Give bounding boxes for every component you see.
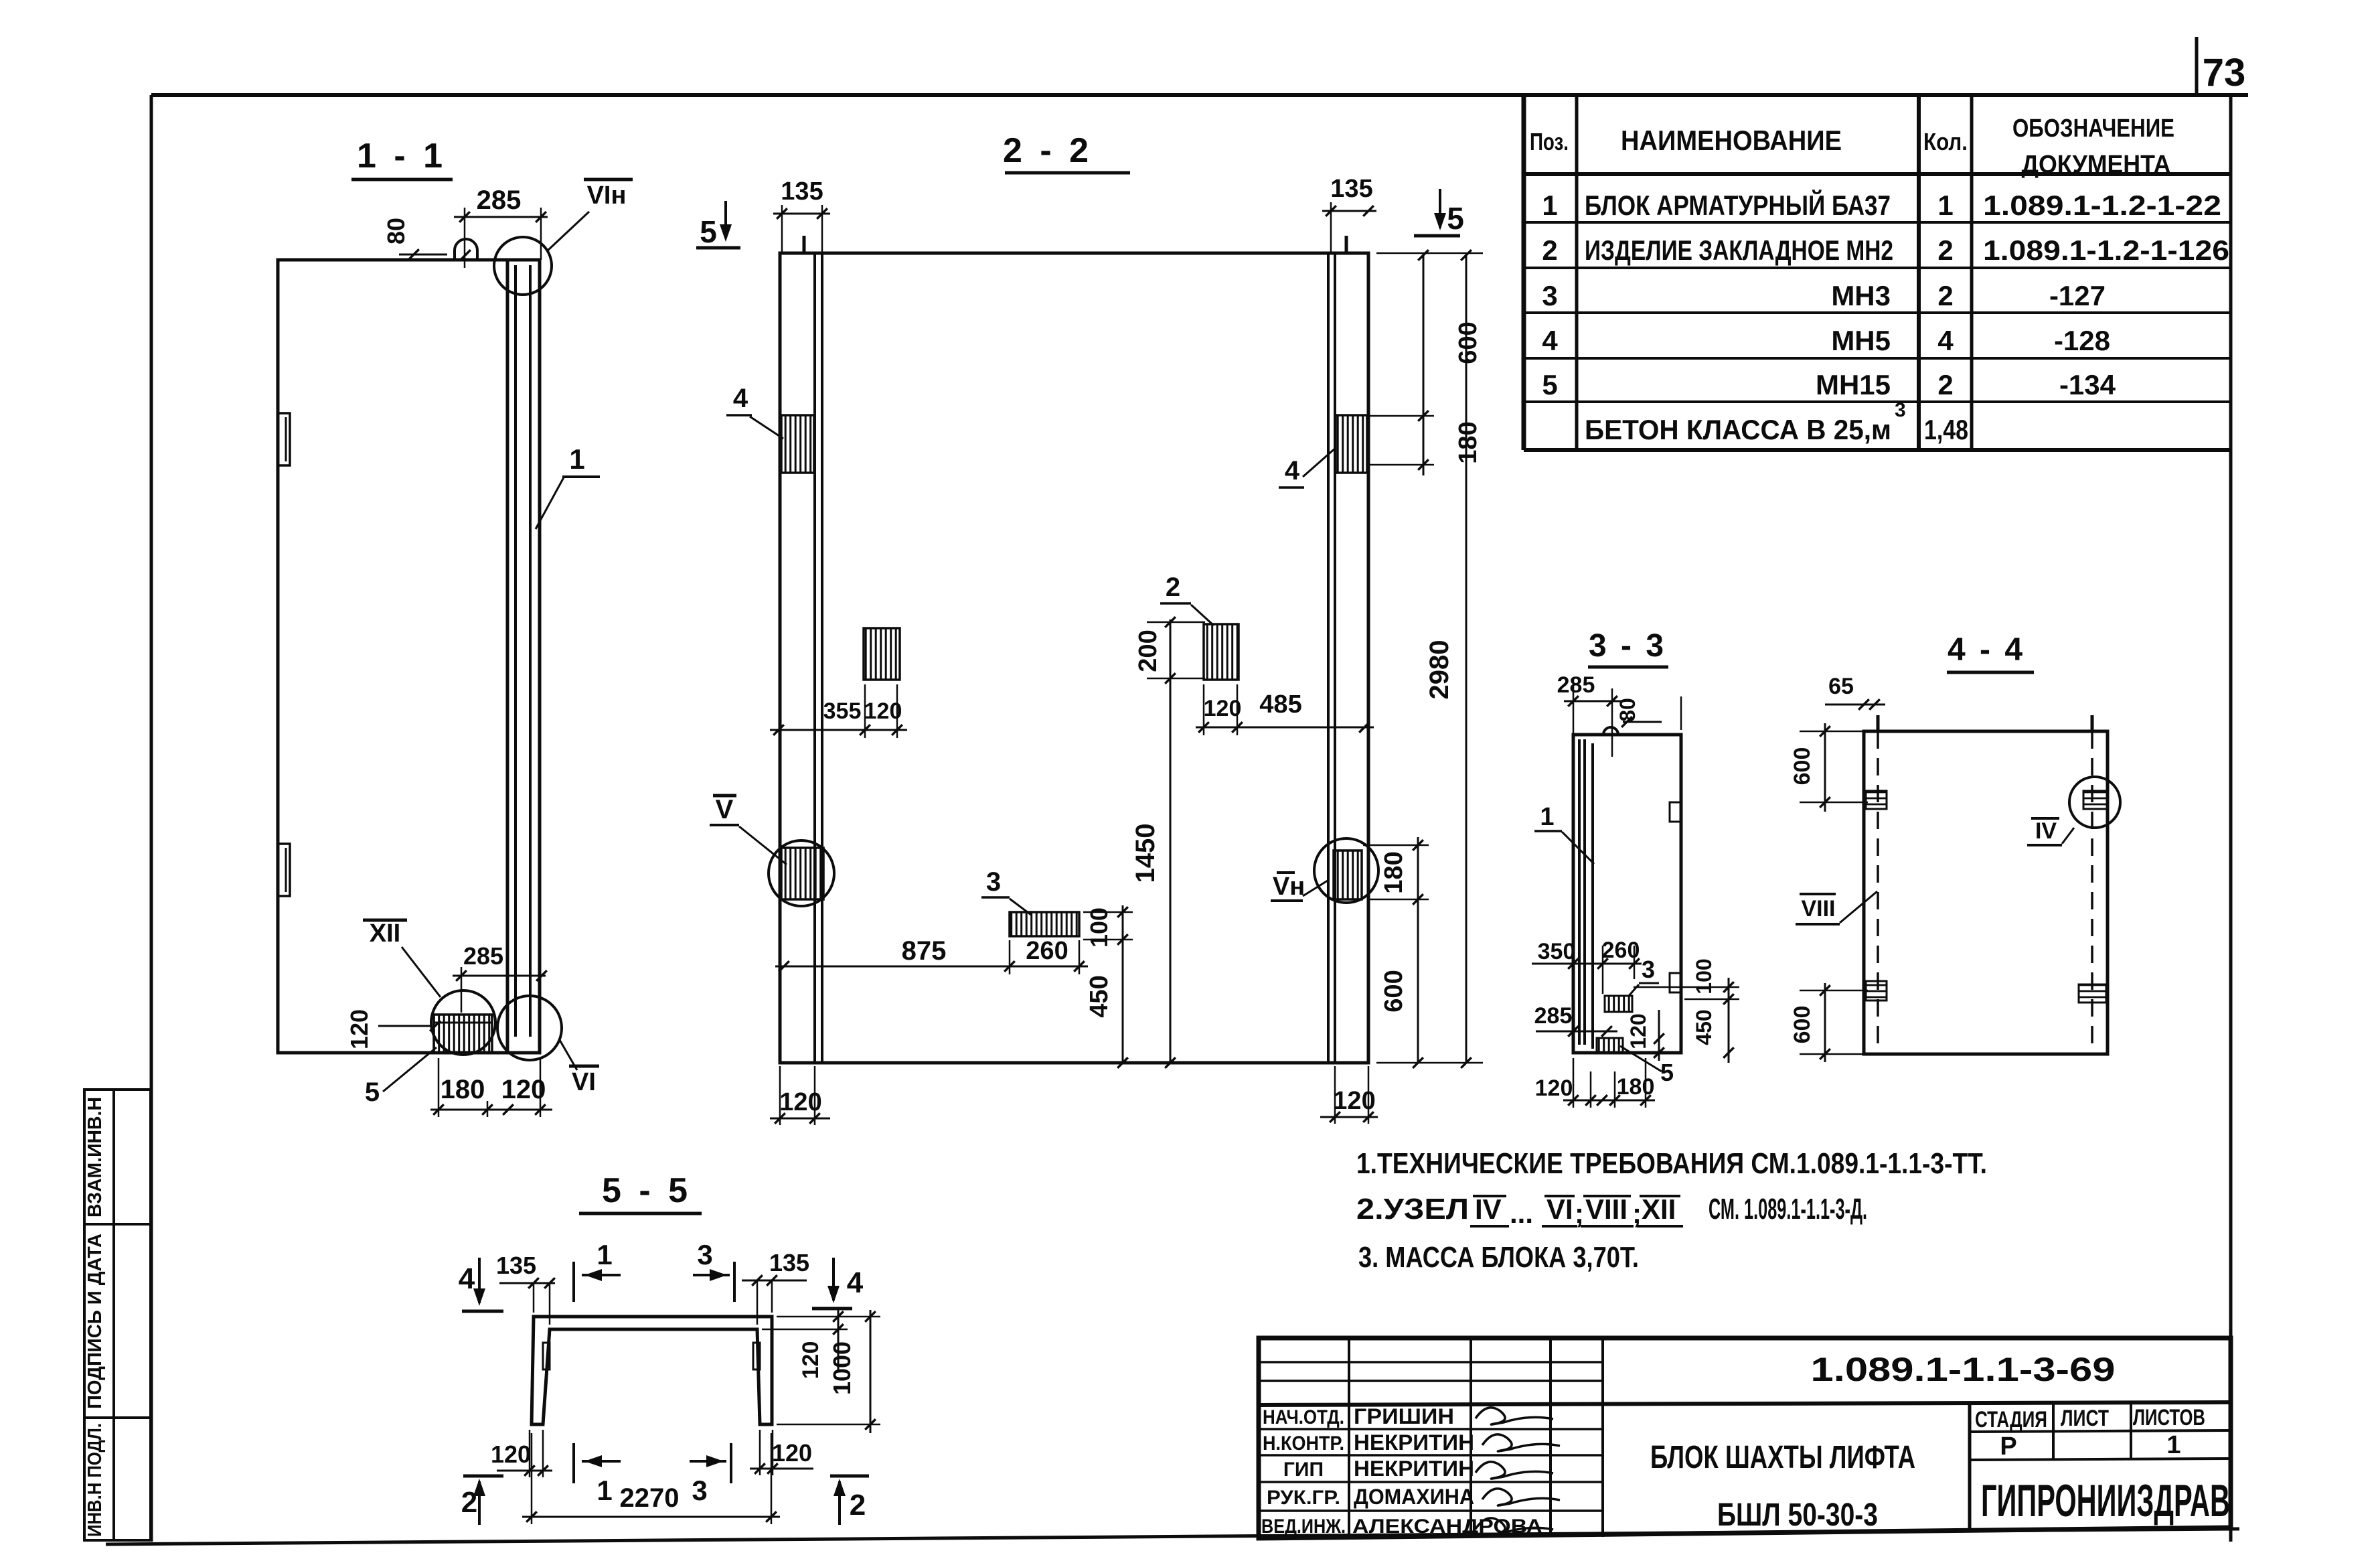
svg-text:120: 120 [1333,1087,1375,1115]
view 2-2 dim 135 top right [1322,210,1376,212]
view 2-2 dim 1450 [1165,1057,1176,1068]
svg-text:ГИП: ГИП [1283,1459,1324,1481]
svg-text:ПОДПИСЬ И ДАТА: ПОДПИСЬ И ДАТА [84,1234,106,1409]
svg-text:5: 5 [1660,1059,1674,1086]
svg-text:600: 600 [1454,321,1482,364]
view 4-4 stub left [1877,715,1880,731]
svg-text:ВЕД.ИНЖ.: ВЕД.ИНЖ. [1261,1515,1346,1538]
svg-text:МН15: МН15 [1816,369,1891,400]
view 3-3 bottom dims 120 180 [1563,1100,1655,1102]
svg-text:БЛОК ШАХТЫ ЛИФТА: БЛОК ШАХТЫ ЛИФТА [1650,1440,1915,1475]
svg-text:4: 4 [733,384,748,413]
svg-text:285: 285 [1557,672,1595,698]
parts table grid [1524,95,2231,450]
svg-text:1: 1 [597,1239,612,1270]
svg-text:5: 5 [1542,369,1557,400]
svg-text:IV: IV [2035,818,2057,844]
svg-text:1: 1 [569,443,584,475]
view 4-4 label IV [2031,817,2059,820]
view 3-3 dim 285 top [1564,700,1623,702]
svg-text:1.089.1-1.2-1-22: 1.089.1-1.2-1-22 [1983,190,2221,221]
view 1-1 label VIn [584,178,633,181]
svg-text:1: 1 [1542,190,1557,221]
view 2-2 pos4 block right [1336,415,1367,473]
svg-text:2.УЗЕЛ: 2.УЗЕЛ [1356,1193,1469,1226]
svg-text:ОБОЗНАЧЕНИЕ: ОБОЗНАЧЕНИЕ [2012,115,2174,143]
svg-text:2: 2 [1166,573,1180,602]
svg-text:4: 4 [1937,325,1954,356]
view 1-1 wall lines [506,260,509,1053]
svg-text:3 - 3: 3 - 3 [1589,628,1666,664]
svg-text:2980: 2980 [1425,640,1454,700]
svg-text:VIн: VIн [587,181,627,210]
view 4-4 stub right [2091,715,2094,731]
sidebar boxes (inv/podpis columns) [84,1090,151,1540]
svg-text:РУК.ГР.: РУК.ГР. [1267,1487,1340,1509]
view 2-2 dim 200 [1170,619,1172,1063]
svg-text:;: ; [1632,1197,1642,1229]
view 2-2 detail circle V [769,840,834,906]
svg-text:120: 120 [1535,1076,1573,1101]
svg-text:1.089.1-1.1-3-69: 1.089.1-1.1-3-69 [1811,1351,2116,1388]
view 2-2 left wall lines [813,253,816,1063]
view 5-5 right leg insert [753,1343,760,1369]
section marker 1 top [572,1262,575,1302]
view 1-1 left edge notch upper [278,413,290,465]
svg-text:XII: XII [370,919,400,948]
svg-text:1: 1 [2166,1431,2180,1459]
view 1-1 detail circle VIn [494,237,552,295]
svg-text:100: 100 [1692,958,1716,994]
svg-text:ВЗАМ.ИНВ.Н: ВЗАМ.ИНВ.Н [84,1097,106,1217]
svg-text:-127: -127 [2049,280,2106,311]
view 2-2 rebar stub right [1345,236,1348,253]
view 2-2 label Vn [1277,871,1295,874]
svg-text:285: 285 [463,942,503,970]
svg-text:НАИМЕНОВАНИЕ: НАИМЕНОВАНИЕ [1621,125,1842,156]
svg-text:180: 180 [1380,851,1408,893]
svg-text:ИНВ.Н ПОДЛ.: ИНВ.Н ПОДЛ. [84,1423,106,1537]
svg-text:100: 100 [1085,907,1113,948]
svg-text:1.ТЕХНИЧЕСКИЕ ТРЕБОВАНИЯ СМ.: 1.ТЕХНИЧЕСКИЕ ТРЕБОВАНИЯ СМ.1.089.1-1.1-… [1356,1147,1987,1180]
view 2-2 dim line 2980 [1465,255,1467,1063]
svg-text:ГРИШИН: ГРИШИН [1354,1404,1454,1428]
svg-text:ИЗДЕЛИЕ ЗАКЛАДНОЕ МН2: ИЗДЕЛИЕ ЗАКЛАДНОЕ МН2 [1585,234,1893,266]
svg-text:355: 355 [823,698,862,724]
svg-text:1450: 1450 [1131,824,1160,883]
svg-text:5: 5 [365,1078,380,1107]
svg-text:Vн: Vн [1273,873,1305,901]
view 4-4 plate top right [2083,791,2108,809]
svg-text:V: V [716,795,734,824]
view 5-5 channel outline [532,1317,772,1424]
svg-text:4: 4 [459,1262,475,1295]
svg-text:120: 120 [1626,1013,1650,1049]
svg-text:600: 600 [1790,1006,1815,1044]
svg-text:80: 80 [382,218,410,244]
view 4-4 dashed axis left [1877,731,1879,1054]
svg-text:3: 3 [986,867,1001,897]
view 2-2 dim 355 120 [770,729,907,731]
svg-text:БШЛ 50-30-3: БШЛ 50-30-3 [1717,1497,1878,1533]
view 4-4 dashed axis right [2091,731,2093,1054]
view 1-1 bottom dims 180 120 [430,1109,552,1111]
svg-text:1000: 1000 [828,1341,856,1395]
view 4-4 dim 600 top left [1824,723,1826,812]
svg-text:3: 3 [1542,280,1557,311]
svg-text:ЛИСТОВ: ЛИСТОВ [2133,1405,2205,1430]
view 2-2 pos3 block [1010,912,1079,936]
svg-text:2270: 2270 [620,1483,680,1513]
svg-text:120: 120 [491,1440,531,1468]
svg-text:80: 80 [1615,698,1640,722]
svg-text:260: 260 [1026,937,1068,965]
svg-text:МН3: МН3 [1831,280,1891,311]
svg-text:4: 4 [1542,325,1558,356]
svg-text:1: 1 [1540,803,1554,831]
view 3-3 lifting loop [1603,727,1618,735]
view 2-2 rebar stub left [803,236,806,253]
svg-text:1: 1 [597,1475,612,1506]
svg-text:485: 485 [1259,690,1301,719]
svg-text:-134: -134 [2059,369,2116,400]
svg-text:3: 3 [697,1239,712,1270]
section marker 1 bottom [572,1443,575,1483]
svg-text:120: 120 [501,1075,546,1104]
svg-text:65: 65 [1828,674,1854,699]
view 2-2 hatch at Vn [1334,850,1362,899]
svg-text:2 - 2: 2 - 2 [1003,131,1093,170]
svg-text:БЛОК АРМАТУРНЫЙ БА37: БЛОК АРМАТУРНЫЙ БА37 [1585,189,1891,221]
view 2-2 dim 180 at Vn [1417,837,1419,907]
view 3-3 outline [1573,735,1681,1053]
view 2-2 dim 120 bottom left [770,1118,830,1120]
svg-text:2: 2 [1937,369,1953,400]
view 2-2 dim 600 bottom right [1417,899,1419,1063]
svg-text:600: 600 [1790,747,1815,786]
svg-text:СМ. 1.089.1-1.1-3-Д.: СМ. 1.089.1-1.1-3-Д. [1709,1193,1867,1226]
svg-text:2: 2 [1542,234,1557,266]
svg-text:VI: VI [572,1068,596,1096]
view 2-2 dim 875 260 [775,966,1088,968]
svg-text:ГИПРОНИИЗДРАВ: ГИПРОНИИЗДРАВ [1981,1475,2230,1526]
svg-text:875: 875 [902,936,947,966]
svg-text:5 - 5: 5 - 5 [602,1171,692,1210]
svg-text:135: 135 [769,1249,809,1276]
svg-text:4: 4 [847,1266,864,1299]
view 1-1 outline [278,260,540,1053]
svg-text:2: 2 [850,1489,866,1522]
view 2-2 dim 120 485 [1196,727,1374,729]
svg-text:ДОМАХИНА: ДОМАХИНА [1354,1485,1474,1509]
svg-text:-128: -128 [2054,325,2110,356]
svg-text:135: 135 [781,177,823,206]
svg-text:3: 3 [1642,956,1655,983]
view 2-2 hatch at V [781,848,823,899]
svg-text:120: 120 [798,1341,823,1380]
view 1-1 detail circle VI bottom [497,996,562,1060]
view 5-5 left leg insert [543,1343,550,1369]
svg-text:Н.КОНТР.: Н.КОНТР. [1263,1432,1344,1455]
svg-text:1,48: 1,48 [1924,414,1968,445]
view 2-2 detail circle Vn [1314,838,1378,903]
svg-text:73: 73 [2203,51,2246,94]
svg-text:135: 135 [1330,175,1372,203]
title block frame [1259,1338,2231,1538]
view 4-4 plate bottom left [1866,981,1887,1000]
view 1-1 label XII [363,919,407,922]
svg-text:120: 120 [864,698,902,724]
svg-text:НЕКРИТИН: НЕКРИТИН [1354,1457,1474,1481]
svg-text:...: ... [1510,1197,1533,1229]
view 4-4 outline [1864,731,2108,1054]
svg-text:200: 200 [1134,629,1162,672]
svg-text:НЕКРИТИН: НЕКРИТИН [1354,1430,1474,1455]
svg-text:4: 4 [1285,456,1300,486]
view 2-2 label V [713,794,736,798]
svg-text:120: 120 [345,1009,373,1049]
svg-text:120: 120 [779,1088,821,1116]
view 3-3 wall lines [1578,739,1581,1045]
svg-text:120: 120 [772,1439,812,1467]
svg-text:135: 135 [496,1252,536,1279]
svg-text:;: ; [1575,1197,1584,1229]
svg-text:Поз.: Поз. [1530,128,1569,155]
svg-text:1 - 1: 1 - 1 [357,137,447,175]
svg-text:350: 350 [1538,939,1576,964]
view 3-3 pos5 block [1597,1038,1623,1053]
svg-text:НАЧ.ОТД.: НАЧ.ОТД. [1263,1406,1344,1428]
svg-text:БЕТОН КЛАССА В 25,м: БЕТОН КЛАССА В 25,м [1585,414,1891,445]
svg-text:3: 3 [692,1475,707,1506]
svg-text:180: 180 [1617,1074,1655,1100]
svg-text:180: 180 [1454,421,1482,463]
svg-text:450: 450 [1692,1009,1716,1045]
view 2-2 outline [780,253,1368,1063]
svg-text:Кол.: Кол. [1923,128,1968,155]
svg-text:АЛЕКСАНДРОВА: АЛЕКСАНДРОВА [1352,1515,1542,1538]
view 3-3 pos3 block [1605,996,1632,1012]
svg-text:3. МАССА БЛОКА 3,70Т.: 3. МАССА БЛОКА 3,70Т. [1358,1241,1639,1274]
view 4-4 dim 600 bottom left [1824,983,1826,1062]
view 4-4 plate bottom right [2079,984,2106,1003]
svg-text:ДОКУМЕНТА: ДОКУМЕНТА [2022,151,2171,179]
view 4-4 label VIII [1800,893,1836,895]
view 2-2 dim 100 450 [1122,905,1124,1063]
view 4-4 plate top left [1866,791,1887,809]
view 2-2 top right dim 600 180 [1423,253,1425,475]
svg-text:120: 120 [1204,696,1242,721]
svg-text:XII: XII [1642,1193,1676,1225]
svg-text:180: 180 [441,1075,485,1104]
view 1-1 left edge notch lower [278,844,290,896]
svg-text:600: 600 [1380,970,1408,1012]
svg-text:Р: Р [2000,1432,2016,1461]
svg-text:260: 260 [1602,938,1640,963]
view 1-1 dim 285 bottom [453,975,546,977]
svg-text:1: 1 [1937,190,1953,221]
view 2-2 pos2 block [1204,624,1239,680]
view 1-1 lifting loop [455,239,477,258]
svg-text:450: 450 [1085,975,1113,1017]
sheet number 73 [2195,37,2199,95]
title block signatures [1476,1408,1560,1535]
svg-text:1.089.1-1.2-1-126: 1.089.1-1.2-1-126 [1983,234,2229,266]
view 2-2 dim 120 bottom right [1320,1116,1378,1118]
svg-text:VIII: VIII [1585,1193,1628,1225]
svg-text:5: 5 [700,214,717,249]
svg-text:VIII: VIII [1801,896,1835,921]
view 2-2 dim 135 top left [773,213,830,215]
svg-text:IV: IV [1475,1193,1502,1225]
svg-text:2: 2 [1937,234,1953,266]
svg-text:СТАДИЯ: СТАДИЯ [1975,1407,2047,1432]
section marker 3 bottom [730,1443,732,1483]
view 1-1 label VI [569,1065,599,1068]
svg-text:МН5: МН5 [1831,325,1891,356]
view 2-2 small block left [864,628,900,680]
svg-text:285: 285 [1534,1003,1573,1029]
svg-text:5: 5 [1447,201,1464,236]
view 3-3 right notch lower [1670,973,1681,992]
svg-text:285: 285 [477,186,522,215]
view 4-4 detail circle IV [2069,777,2120,828]
view 1-1 pos5 hatched block [434,1015,492,1053]
svg-text:ЛИСТ: ЛИСТ [2061,1406,2109,1431]
svg-text:3: 3 [1895,399,1906,421]
view 2-2 right wall lines [1327,253,1330,1063]
svg-text:2: 2 [1937,280,1953,311]
svg-text:VI: VI [1546,1193,1573,1225]
view 3-3 dim 100 450 right [1728,978,1730,1063]
view 1-1 detail circle XII bottom [431,990,495,1055]
svg-text:2: 2 [461,1486,477,1519]
view 3-3 dim 350 260 [1532,963,1642,965]
svg-text:4 - 4: 4 - 4 [1948,632,2025,668]
view 1-1 dim 285 top [454,216,548,218]
view 3-3 right notch upper [1670,802,1681,822]
view 2-2 pos4 block left [781,415,814,473]
section marker 3 top [733,1262,736,1302]
